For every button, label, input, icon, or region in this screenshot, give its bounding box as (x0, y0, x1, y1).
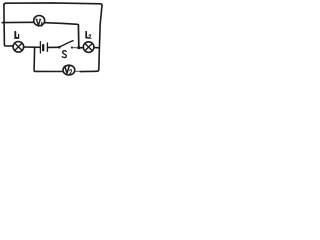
wire: left vertical (4, 5, 13, 47)
label V2: letter V (65, 67, 69, 74)
lamp L2 cross (85, 43, 92, 50)
wire: battery to switch (48, 46, 58, 48)
wire: contact to node (faint) (73, 47, 77, 49)
wire: V1 drop to node (77, 25, 79, 47)
battery plate right (46, 43, 48, 51)
lamp L2 circle (83, 42, 94, 53)
wire: V1 branch right (45, 23, 78, 25)
wire: V1 branch left (2, 21, 33, 23)
wire: L2 to right vertical (94, 47, 99, 49)
wire: node to L2 (80, 47, 83, 49)
label L2: subscript 2 (89, 35, 91, 38)
label S (62, 51, 66, 58)
lamp L1 circle (13, 42, 24, 53)
label L1: letter L (15, 32, 17, 38)
label V2: subscript 2 (70, 70, 73, 74)
battery plate long (39, 42, 41, 53)
label L1: subscript 1 (18, 35, 20, 39)
switch contact dot (71, 46, 73, 48)
voltmeter V2 circle (63, 65, 75, 75)
label V1: letter V (37, 20, 41, 26)
voltmeter V1 circle (34, 16, 45, 26)
switch pivot dot (58, 46, 61, 49)
label V1: subscript 1 (41, 22, 43, 26)
node junction dot (77, 46, 80, 49)
wire: L1 to battery (24, 46, 40, 48)
label L2: letter L (86, 32, 88, 38)
switch lever (60, 41, 73, 47)
lamp L1 cross (15, 43, 22, 50)
battery plate short thick (42, 45, 44, 50)
wire: T-junction down and bottom left wire (34, 47, 62, 71)
wire: main loop top and right vertical (4, 3, 102, 71)
wire: V2 to right corner (faint then normal) (76, 70, 81, 72)
background (0, 0, 105, 80)
